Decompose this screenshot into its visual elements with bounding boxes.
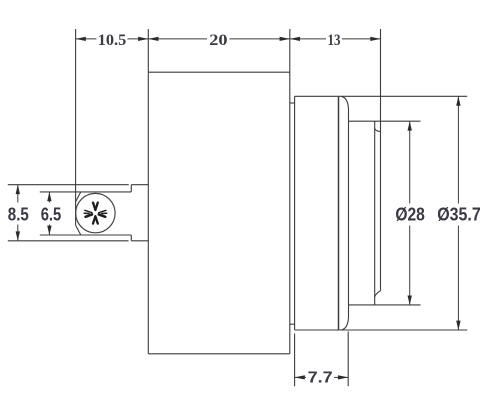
shaft outer top line xyxy=(8,184,129,186)
hub chamfer bottom-left xyxy=(76,225,81,235)
dim line 13 xyxy=(290,38,326,40)
arrow 20 right / 13 left pair at x=289.8 xyxy=(280,37,290,41)
dim line 20 xyxy=(148,38,207,40)
arrow 10.5 left xyxy=(76,37,86,41)
flange seam line xyxy=(338,97,340,330)
dim line 8.5 xyxy=(17,185,19,203)
shaft step jog top xyxy=(130,185,132,192)
screw circle xyxy=(76,193,115,232)
end cap top corner arc xyxy=(375,128,381,131)
svg-text:Ø35.7: Ø35.7 xyxy=(437,204,481,224)
flange left face + lower extension xyxy=(294,96,296,330)
arrow dia35.7 bottom xyxy=(456,321,460,330)
dim line dia28 xyxy=(409,121,411,203)
arrowheads xyxy=(16,37,461,380)
svg-text:7.7: 7.7 xyxy=(308,370,333,387)
dim line 6.5 xyxy=(48,192,50,203)
shaft inner bottom line xyxy=(40,234,132,236)
body right edge + extension xyxy=(289,29,291,354)
flange bottom edge + dia35.7 extension xyxy=(295,329,468,331)
body bottom edge xyxy=(148,353,289,355)
arrow 7.7 left xyxy=(295,375,305,379)
arrow dia28 top xyxy=(408,121,412,130)
svg-text:Ø28: Ø28 xyxy=(395,204,425,224)
arrow 10.5 right / 20 left pair at x=148.3 xyxy=(138,37,148,41)
junction tick bottom xyxy=(290,323,295,325)
svg-text:8.5: 8.5 xyxy=(8,204,29,224)
flange right face xyxy=(348,109,350,317)
arrow dia35.7 top xyxy=(456,96,460,105)
dim line 10.5 xyxy=(76,38,97,40)
arrow 6.5 bottom xyxy=(47,226,51,235)
dimension lines xyxy=(18,39,459,378)
arrow 13 right xyxy=(370,37,380,41)
can top edge + dia28 extension xyxy=(349,120,421,122)
end cap seam xyxy=(374,121,376,305)
extension line left (shaft end) xyxy=(75,29,77,225)
end cap bottom corner arc xyxy=(375,291,381,297)
shaft inner top line xyxy=(40,191,132,193)
svg-text:13: 13 xyxy=(328,32,341,49)
svg-text:20: 20 xyxy=(209,32,227,49)
flange top fillet xyxy=(342,96,349,109)
hub chamfer top-left xyxy=(76,192,81,202)
body top edge xyxy=(148,71,289,73)
dim line dia35.7 xyxy=(457,96,459,203)
svg-text:6.5: 6.5 xyxy=(41,204,62,224)
flange right face lower extension xyxy=(347,332,349,387)
shaft step jog bottom xyxy=(130,235,132,241)
flange top edge + dia35.7 extension xyxy=(295,95,468,97)
screw star symbol xyxy=(84,203,106,224)
arrow 8.5 bottom xyxy=(16,231,20,240)
svg-text:10.5: 10.5 xyxy=(98,32,127,49)
dim line 7.7 xyxy=(295,376,306,378)
can bottom edge + dia28 extension xyxy=(349,304,421,306)
body left edge + extension xyxy=(147,29,149,354)
motor end face + extension xyxy=(380,29,382,291)
arrow dia28 bottom xyxy=(408,296,412,305)
arrow 6.5 top xyxy=(47,192,51,201)
arrow 7.7 right xyxy=(338,375,348,379)
junction tick top xyxy=(290,102,295,104)
flange bottom fillet xyxy=(342,317,349,330)
arrow 8.5 top xyxy=(16,185,20,194)
shaft outer bottom line xyxy=(8,240,129,242)
